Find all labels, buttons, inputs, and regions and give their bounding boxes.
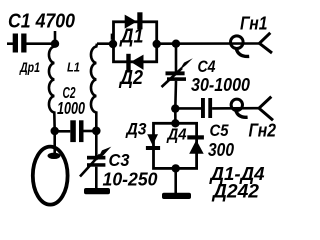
svg-text:Д2: Д2 <box>118 67 143 89</box>
svg-text:300: 300 <box>208 139 235 160</box>
svg-text:С1 4700: С1 4700 <box>8 11 75 33</box>
svg-text:Гн2: Гн2 <box>249 121 277 141</box>
svg-text:Д4: Д4 <box>166 127 187 144</box>
svg-text:L1: L1 <box>67 60 80 75</box>
svg-text:Гн1: Гн1 <box>240 14 268 34</box>
svg-text:Д242: Д242 <box>211 182 259 203</box>
svg-text:10-250: 10-250 <box>103 169 159 190</box>
svg-text:Д3: Д3 <box>125 120 147 139</box>
svg-text:С3: С3 <box>109 150 130 170</box>
svg-text:Др1: Др1 <box>19 59 40 75</box>
svg-text:С4: С4 <box>198 57 216 76</box>
svg-text:1000: 1000 <box>57 98 85 118</box>
svg-text:С5: С5 <box>210 121 229 140</box>
svg-text:30-1000: 30-1000 <box>191 75 250 95</box>
svg-text:Д1: Д1 <box>119 26 144 48</box>
